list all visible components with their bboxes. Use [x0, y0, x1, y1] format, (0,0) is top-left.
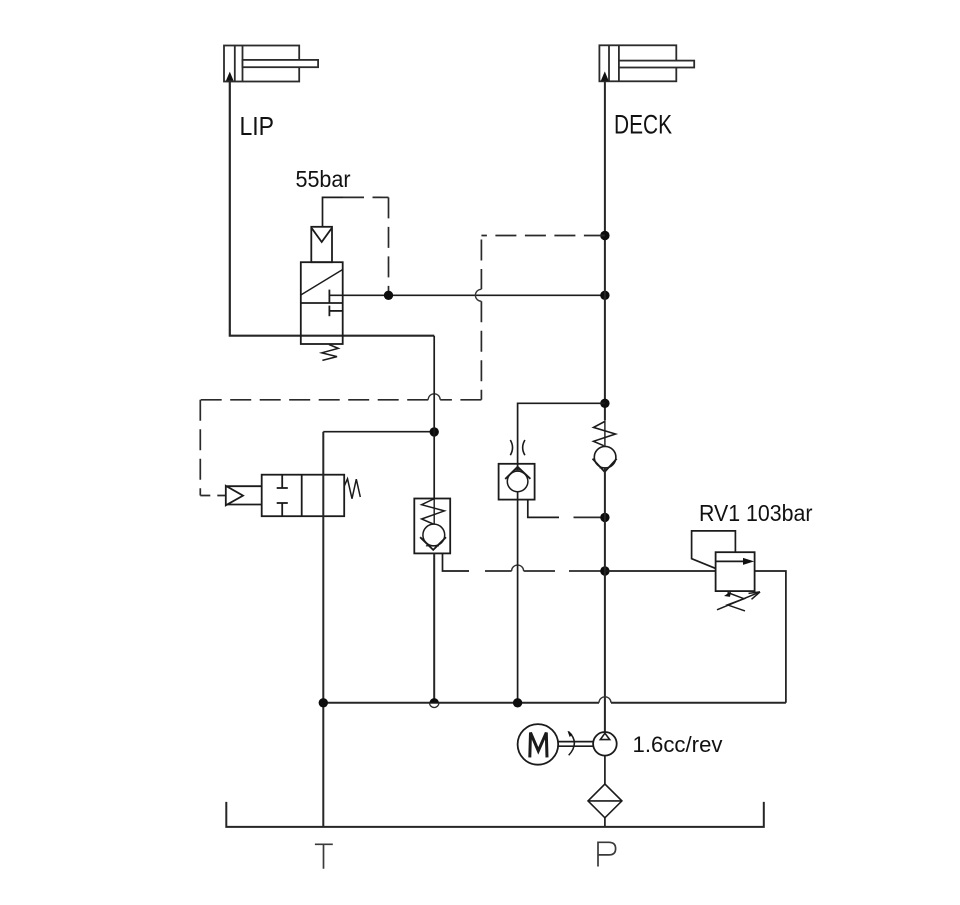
node deck 403: [600, 399, 609, 408]
hop return over P line: [599, 697, 611, 703]
wire RV1 outlet: [755, 571, 786, 703]
svg-text:DECK: DECK: [614, 109, 672, 139]
wire V1 output to DECK line: [329, 294, 605, 296]
node deck 235: [600, 231, 609, 240]
node deck 571: [600, 566, 609, 575]
wire RV1 inlet: [605, 570, 716, 572]
wire V1 pilot dashed down: [388, 197, 390, 291]
wire FC1 line lower: [517, 492, 519, 703]
svg-text:55bar: 55bar: [296, 166, 351, 192]
wire T line vertical: [322, 432, 324, 827]
hop dashed over output line: [475, 289, 481, 301]
svg-text:RV1 103bar: RV1 103bar: [699, 500, 813, 526]
valve PC1 pilot-operated 2/2: [226, 475, 360, 517]
node CV top: [430, 427, 439, 436]
filter F1: [588, 784, 622, 818]
hop dashed over CV line: [428, 394, 440, 400]
node at 388: [384, 291, 393, 300]
wire FC1 top: [518, 403, 605, 470]
wire T branch horizontal: [323, 431, 434, 433]
wire CV2 drain solid: [443, 553, 470, 571]
relief valve RV1 body: [716, 552, 760, 611]
check valve CV3 on P line: [593, 420, 617, 472]
wire P line upper: [604, 81, 606, 420]
pilot dashed from deck 235 to left: [481, 235, 605, 237]
wire pump to filter: [604, 756, 606, 785]
half node CV 703: [430, 698, 439, 703]
svg-text:1.6cc/rev: 1.6cc/rev: [633, 732, 723, 757]
hop drain over FC1 line: [512, 565, 524, 571]
node deck 517: [600, 513, 609, 522]
wire CV2 drain dashed: [485, 570, 601, 572]
wire FC1 drain dashed: [574, 516, 602, 518]
node at DECK line 295: [600, 291, 609, 300]
wire CV line lower: [433, 553, 435, 700]
wire CV line upper: [433, 336, 435, 499]
cylinder DECK: [599, 45, 694, 81]
throttle check FC1: [499, 440, 535, 500]
motor M1: [518, 724, 594, 765]
svg-text:LIP: LIP: [240, 111, 275, 141]
node FC1 703: [513, 698, 522, 707]
valve V1 55bar: [301, 227, 343, 361]
wire P line lower: [604, 468, 606, 734]
wire filter to tank: [604, 818, 606, 827]
pilot dashed vertical 481: [480, 236, 482, 290]
tank manifold: [226, 802, 764, 827]
node T line 703: [319, 698, 328, 707]
wire V1 pilot dashed top: [343, 196, 389, 198]
pilot dashed stub to PC1: [200, 495, 226, 497]
wire V1 pilot solid: [323, 197, 344, 226]
relief valve RV1 pilot: [692, 531, 736, 569]
pilot dashed horizontal 400: [200, 399, 481, 401]
pilot dashed vertical 200: [199, 400, 201, 496]
cylinder LIP: [224, 46, 318, 82]
pump P1: [593, 732, 617, 756]
wire LIP line: [230, 82, 434, 336]
wire RV1 return line: [323, 702, 786, 704]
port label P: [598, 842, 616, 866]
port label T: [315, 844, 333, 868]
check valve CV2: [414, 499, 450, 554]
wire FC1 drain: [528, 500, 559, 518]
